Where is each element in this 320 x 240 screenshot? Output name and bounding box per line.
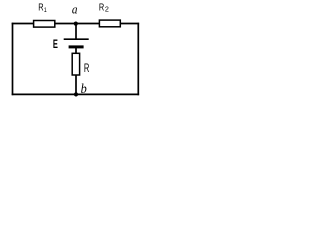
- svg-text:R: R: [84, 62, 89, 75]
- node b junction dot: [74, 92, 78, 96]
- wire: top-middle segment R1 to R2 through node a: [54, 23, 100, 25]
- svg-text:1: 1: [44, 6, 48, 14]
- svg-text:E: E: [53, 38, 58, 51]
- wire: bottom side of loop: [12, 93, 139, 95]
- wire: battery to resistor R: [75, 47, 77, 54]
- wire: top-left segment from corner to R1: [12, 23, 35, 25]
- node a junction dot: [74, 22, 78, 26]
- resistor R (vertical): [72, 53, 79, 75]
- wire: resistor R down to bottom node b: [75, 75, 77, 94]
- wire: node a down to battery: [75, 24, 77, 39]
- wire: top-right segment from R2 to corner: [120, 23, 140, 25]
- svg-text:R: R: [99, 1, 105, 12]
- battery E short thick plate: [69, 45, 84, 48]
- svg-text:b: b: [81, 80, 88, 96]
- wire: right vertical side of loop: [137, 23, 139, 96]
- wire: left vertical side of loop: [12, 23, 14, 96]
- svg-text:2: 2: [105, 5, 109, 14]
- svg-text:a: a: [72, 2, 78, 17]
- resistor R1: [34, 21, 55, 28]
- battery E long plate: [64, 38, 89, 40]
- resistor R2: [99, 20, 120, 27]
